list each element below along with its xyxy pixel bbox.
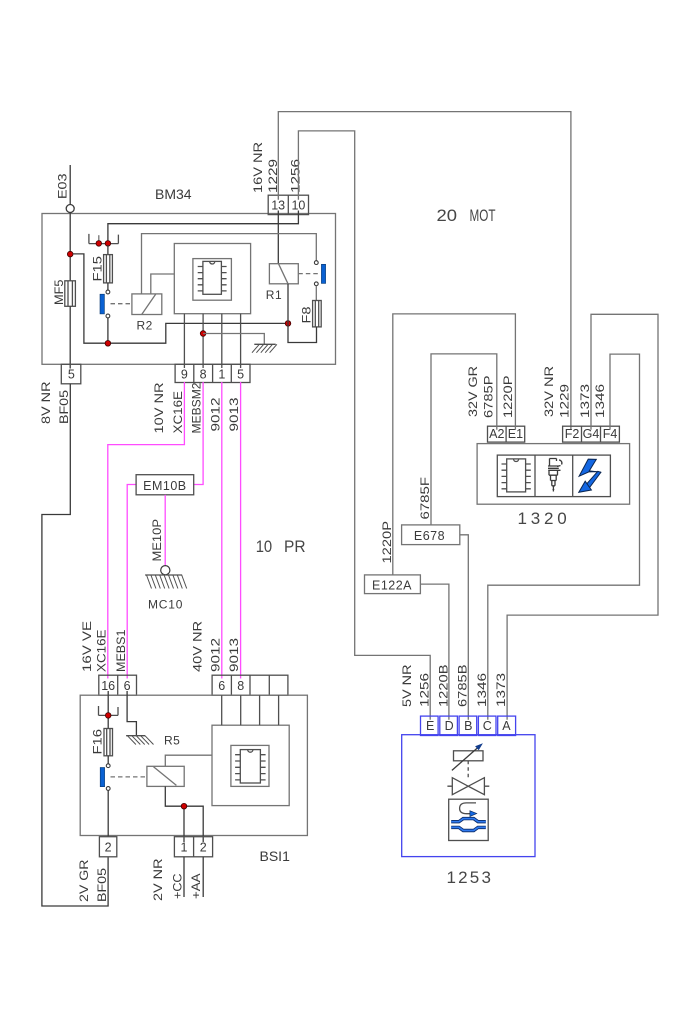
- wire switch to F8: [315, 286, 317, 301]
- throttle body icon 1253: [449, 799, 489, 840]
- svg-text:F2: F2: [565, 427, 580, 441]
- wire ECU pin b: [202, 314, 204, 368]
- wire switch to supply bus: [107, 318, 109, 343]
- svg-text:16V VE: 16V VE: [80, 621, 94, 672]
- wire R1 to junction: [287, 284, 289, 324]
- wire F8 to junction: [288, 323, 317, 342]
- connector 16|6: [99, 675, 137, 695]
- box 1253: [402, 735, 535, 857]
- svg-text:F16: F16: [91, 729, 105, 755]
- relay R1: [266, 264, 299, 302]
- wire R5 to ECU: [165, 755, 212, 766]
- wire BSI ECU pin a: [221, 695, 223, 725]
- box BM34: [42, 214, 336, 365]
- svg-text:1346: 1346: [475, 673, 489, 707]
- svg-text:1220P: 1220P: [380, 521, 394, 564]
- wire net 6785P: [431, 354, 497, 525]
- butterfly valve icon 1253: [447, 778, 489, 795]
- ECU module BSI1: [212, 725, 289, 805]
- wire net 9012: [221, 382, 223, 679]
- svg-text:BF05: BF05: [57, 390, 71, 424]
- wire switch to pin2: [107, 790, 109, 836]
- wire pin6 to ground: [127, 691, 136, 736]
- svg-text:F8: F8: [300, 306, 314, 323]
- fuse MF5: [52, 279, 75, 306]
- wire E122A to D: [420, 584, 449, 720]
- svg-text:1: 1: [181, 841, 188, 855]
- svg-text:5V NR: 5V NR: [400, 664, 414, 707]
- label 10 PR: [256, 537, 306, 556]
- svg-text:10V NR: 10V NR: [152, 382, 166, 433]
- svg-text:BSI1: BSI1: [260, 848, 291, 864]
- svg-text:PR: PR: [284, 537, 306, 556]
- dashed link R1 to switch: [298, 273, 319, 275]
- splice box E122A: [365, 575, 421, 594]
- splice box E678: [402, 525, 460, 545]
- svg-text:9012: 9012: [209, 638, 223, 672]
- icon strip 1320: [497, 455, 610, 497]
- svg-text:8V NR: 8V NR: [39, 381, 53, 424]
- svg-text:E03: E03: [56, 173, 70, 199]
- fuse F16: [91, 729, 113, 756]
- svg-text:9: 9: [181, 367, 188, 381]
- svg-text:9013: 9013: [227, 638, 241, 672]
- svg-text:XC16E: XC16E: [171, 391, 185, 434]
- wire net 9013: [240, 382, 242, 679]
- svg-text:9013: 9013: [227, 397, 241, 431]
- svg-text:E678: E678: [414, 529, 445, 543]
- pin 5 connector BM34: [61, 364, 81, 384]
- relay R5: [147, 734, 184, 787]
- svg-text:MC10: MC10: [148, 598, 183, 612]
- svg-text:6: 6: [218, 679, 225, 693]
- svg-text:1373: 1373: [578, 384, 592, 418]
- wire to ground BM34: [203, 334, 264, 345]
- svg-text:6785B: 6785B: [456, 665, 470, 708]
- IC chip BM34: [198, 261, 227, 294]
- wire +AA stub: [202, 857, 204, 897]
- svg-text:BF05: BF05: [95, 868, 109, 902]
- svg-text:1373: 1373: [494, 673, 508, 707]
- label 20 MOT: [437, 206, 496, 225]
- ground symbol BM34: [252, 344, 277, 352]
- svg-text:13: 13: [271, 199, 285, 213]
- ground symbol MC10: [145, 575, 187, 589]
- wire net 1229: [278, 112, 571, 430]
- svg-text:XC16E: XC16E: [95, 630, 109, 673]
- connector 13|10: [268, 195, 308, 214]
- IC chip BSI1: [235, 750, 266, 783]
- svg-text:+AA: +AA: [189, 874, 203, 900]
- wire E03 feed: [69, 165, 71, 281]
- svg-text:1253: 1253: [447, 868, 494, 887]
- svg-text:BM34: BM34: [155, 186, 192, 202]
- splice EM10B: [136, 475, 194, 495]
- ECU module BM34: [174, 244, 250, 314]
- svg-text:32V NR: 32V NR: [542, 366, 556, 417]
- svg-text:ME10P: ME10P: [150, 519, 164, 562]
- box 1320: [477, 444, 629, 505]
- svg-text:C: C: [483, 719, 492, 733]
- svg-text:1220P: 1220P: [501, 376, 515, 419]
- switch contact F15 bottom: [106, 314, 110, 318]
- svg-text:A: A: [502, 719, 511, 733]
- potentiometer icon 1253: [452, 743, 483, 770]
- svg-text:MOT: MOT: [470, 206, 496, 225]
- IC chip 1320: [502, 459, 531, 492]
- svg-text:B: B: [464, 719, 472, 733]
- svg-text:40V NR: 40V NR: [191, 621, 205, 672]
- dashed link pot to valve: [467, 761, 469, 778]
- svg-text:16V NR: 16V NR: [251, 142, 265, 193]
- svg-text:F15: F15: [91, 256, 105, 282]
- svg-text:2V GR: 2V GR: [77, 859, 91, 902]
- junction dot switch bottom: [105, 341, 111, 347]
- wire net 1256: [298, 131, 430, 720]
- svg-text:5: 5: [68, 368, 75, 382]
- svg-text:MF5: MF5: [52, 279, 66, 305]
- svg-text:1346: 1346: [593, 384, 607, 418]
- connector A2|E1: [488, 426, 525, 442]
- svg-text:MEBS1: MEBS1: [114, 629, 128, 672]
- wire splice to F15: [107, 245, 109, 255]
- splice bracket BSI1: [99, 706, 119, 715]
- dashed link switch to R2: [111, 303, 132, 305]
- svg-text:2: 2: [200, 841, 207, 855]
- svg-text:1229: 1229: [558, 384, 572, 418]
- fuse F8: [300, 301, 322, 327]
- ground symbol BSI1: [126, 736, 153, 745]
- wire net BF05: [42, 384, 108, 906]
- wire net MEBS1: [127, 485, 136, 679]
- connector 9|8|1|5: [175, 364, 250, 382]
- svg-text:6785P: 6785P: [482, 376, 496, 419]
- wire net XC16E: [108, 382, 185, 679]
- wire net 1346: [488, 354, 640, 720]
- wire net 1220P: [393, 314, 516, 575]
- lightning bolt icon 1320: [579, 459, 601, 492]
- svg-text:D: D: [445, 719, 454, 733]
- svg-text:R2: R2: [137, 319, 153, 333]
- injector icon 1320: [548, 459, 562, 492]
- wire BSI ECU pin b: [240, 695, 242, 725]
- svg-text:10: 10: [256, 537, 273, 556]
- wire ECU pin a: [183, 314, 185, 368]
- switch contact R1 top: [314, 261, 318, 265]
- dashed link switch to R5: [111, 776, 147, 778]
- svg-text:E: E: [426, 719, 434, 733]
- connector F2|G4|F4: [563, 426, 620, 442]
- fuse F15: [91, 255, 113, 283]
- wire EM10B to ground ME10P: [164, 495, 166, 566]
- junction dot R1 bottom: [285, 321, 291, 327]
- svg-text:8: 8: [200, 367, 207, 381]
- junction dot R5 output: [181, 803, 187, 809]
- svg-text:20: 20: [437, 206, 458, 225]
- wire ECU pin c: [221, 314, 223, 368]
- wire pin10 to F15: [108, 211, 299, 244]
- wire pin13 to R1: [277, 211, 279, 264]
- svg-text:32V GR: 32V GR: [466, 366, 480, 417]
- wire R2 to ECU: [151, 274, 175, 294]
- svg-text:1220B: 1220B: [437, 665, 451, 708]
- svg-text:10: 10: [291, 199, 305, 213]
- connector 6|8: [212, 675, 288, 695]
- switch contact F15 top: [107, 283, 109, 290]
- svg-text:MEBSM2: MEBSM2: [190, 382, 204, 433]
- wire ECU pin d: [240, 314, 242, 368]
- box BSI1: [80, 695, 307, 835]
- ground node MC10 circle: [161, 566, 170, 575]
- switch contact R1 bottom: [314, 282, 318, 286]
- junction dot ground tap: [200, 331, 206, 337]
- svg-text:R1: R1: [266, 288, 282, 302]
- connector 1|2 BSI1: [174, 837, 212, 857]
- svg-text:1: 1: [218, 367, 225, 381]
- junction dot MF5 top: [67, 251, 73, 257]
- connector 2 BSI1: [99, 837, 116, 857]
- wire pin16 to F16: [107, 691, 109, 729]
- relay R2: [132, 294, 162, 333]
- wire MF5 to pin 5: [69, 306, 71, 368]
- svg-text:+CC: +CC: [171, 873, 185, 899]
- splice bracket BM34: [89, 234, 119, 244]
- node E03: [56, 173, 75, 212]
- svg-text:E122A: E122A: [372, 578, 412, 592]
- wire BSI ECU pin d: [278, 695, 280, 725]
- svg-text:6785F: 6785F: [418, 477, 432, 520]
- switch actuator blue bar left: [100, 294, 104, 314]
- wire net 1373: [507, 314, 658, 720]
- svg-text:2: 2: [105, 841, 112, 855]
- junction dot splice left: [96, 241, 102, 247]
- wire R5 to pins 1 2: [165, 786, 203, 842]
- switch contact F16 bottom: [106, 787, 110, 791]
- svg-text:2V NR: 2V NR: [151, 858, 165, 901]
- junction dot splice BSI1: [105, 713, 111, 719]
- supply bus wire: [73, 254, 288, 343]
- svg-text:5: 5: [237, 367, 244, 381]
- junction dot splice right: [105, 241, 111, 247]
- wire +CC stub: [183, 857, 185, 897]
- switch actuator blue bar right: [321, 264, 325, 283]
- svg-text:1256: 1256: [418, 673, 432, 707]
- svg-text:9012: 9012: [209, 397, 223, 431]
- svg-text:R5: R5: [164, 734, 180, 748]
- svg-text:1320: 1320: [518, 509, 571, 528]
- svg-text:EM10B: EM10B: [143, 479, 187, 493]
- wire E678 to B: [460, 535, 469, 720]
- connector E|D|B|C|A: [421, 716, 516, 735]
- switch actuator blue bar BSI1: [100, 768, 104, 787]
- svg-text:1256: 1256: [289, 159, 303, 193]
- wire BSI ECU pin c: [259, 695, 261, 725]
- svg-text:8: 8: [237, 679, 244, 693]
- wire net MEBSM2: [194, 382, 203, 485]
- switch contact F16 top: [107, 756, 109, 764]
- wire R2 coil to switch top: [142, 234, 317, 294]
